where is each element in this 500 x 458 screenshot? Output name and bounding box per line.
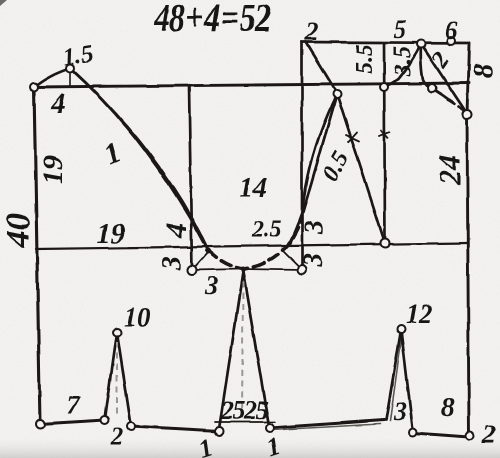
svg-text:7: 7 [67, 391, 81, 420]
svg-text:3: 3 [156, 256, 186, 271]
svg-text:12: 12 [406, 299, 433, 329]
svg-text:2525: 2525 [220, 396, 269, 425]
svg-text:10: 10 [124, 302, 152, 332]
svg-text:40: 40 [0, 213, 37, 248]
svg-text:5.5: 5.5 [352, 44, 378, 74]
svg-text:3: 3 [298, 253, 329, 268]
svg-text:6: 6 [445, 16, 458, 45]
svg-text:19: 19 [37, 156, 69, 185]
svg-text:8: 8 [441, 392, 455, 422]
svg-text:2: 2 [305, 17, 319, 46]
svg-text:19: 19 [97, 219, 125, 250]
svg-text:8: 8 [467, 63, 499, 78]
svg-text:3.5: 3.5 [390, 46, 416, 77]
svg-text:3: 3 [393, 397, 407, 426]
svg-text:14: 14 [239, 173, 267, 204]
svg-text:24: 24 [432, 155, 467, 187]
svg-text:2.5: 2.5 [251, 217, 282, 243]
svg-text:48 + 4 = 52: 48 + 4 = 52 [153, 0, 271, 39]
svg-text:3: 3 [205, 271, 219, 300]
svg-text:2: 2 [110, 423, 124, 450]
svg-text:2: 2 [481, 419, 496, 449]
svg-text:1.5: 1.5 [61, 41, 94, 71]
svg-text:4: 4 [50, 88, 66, 120]
svg-text:4: 4 [160, 223, 193, 239]
svg-text:5: 5 [394, 15, 407, 44]
svg-text:3: 3 [299, 220, 330, 235]
